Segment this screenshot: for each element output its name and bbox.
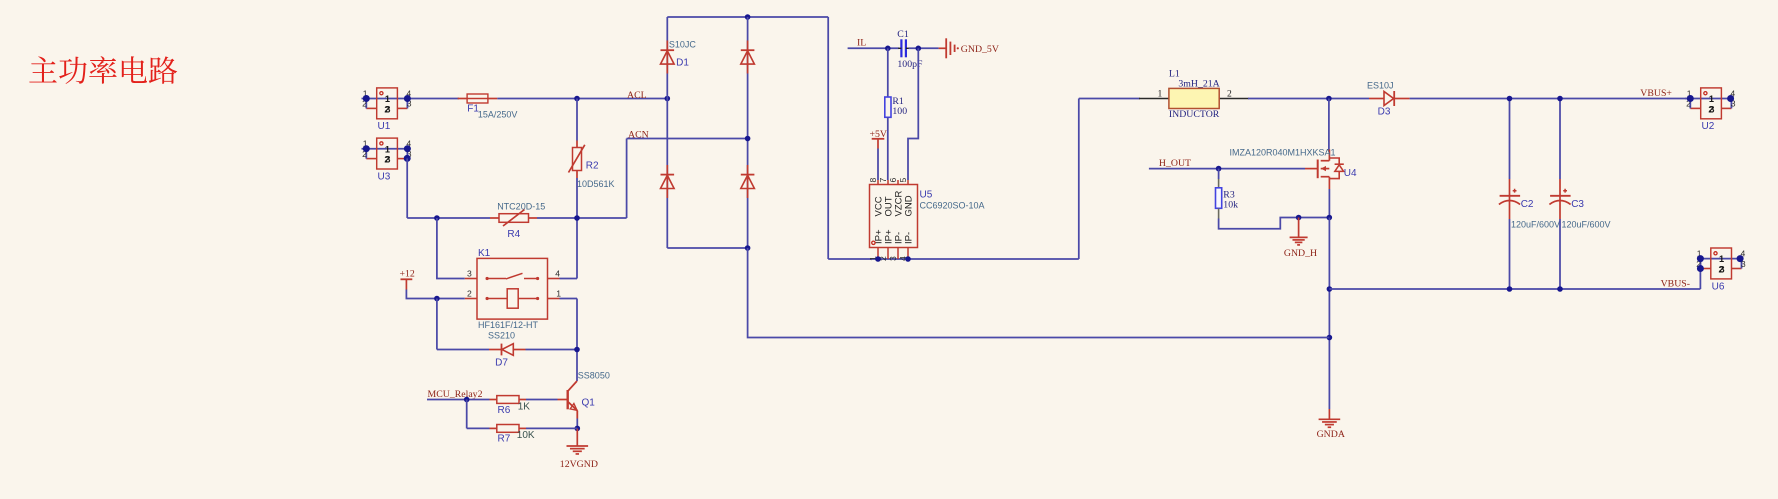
svg-text:SS210: SS210 bbox=[488, 330, 515, 340]
svg-text:8: 8 bbox=[868, 178, 878, 183]
wire divider down bbox=[466, 400, 468, 429]
junction C1 right bbox=[916, 46, 922, 52]
fuse F1 15A/250V bbox=[458, 94, 518, 120]
resistor R3 10k bbox=[1216, 169, 1239, 219]
junction return join bbox=[1327, 335, 1333, 341]
resistor R1 100 bbox=[885, 48, 907, 117]
svg-text:1K: 1K bbox=[518, 401, 531, 412]
wire R3 to source row bbox=[1219, 218, 1330, 229]
svg-text:NTC20D-15: NTC20D-15 bbox=[497, 201, 545, 211]
wire bridge to sensor bbox=[827, 17, 829, 259]
svg-text:H_OUT: H_OUT bbox=[1159, 158, 1191, 169]
wire bridge bottom bbox=[667, 247, 747, 249]
svg-text:7: 7 bbox=[878, 178, 888, 183]
wire VBUS- row bbox=[1329, 288, 1700, 290]
wire bridge top bbox=[667, 16, 828, 18]
wire ACN row bbox=[627, 138, 748, 140]
svg-text:+12: +12 bbox=[400, 269, 415, 280]
junction bus pin4 bbox=[905, 256, 911, 262]
svg-text:10D561K: 10D561K bbox=[577, 179, 615, 189]
junction bridge bottom bbox=[745, 245, 751, 251]
junction base divider bbox=[464, 397, 470, 403]
wire to L1 bbox=[1079, 98, 1140, 100]
capacitor C1 100pF bbox=[897, 29, 923, 70]
svg-text:C3: C3 bbox=[1571, 199, 1584, 210]
svg-text:K1: K1 bbox=[478, 248, 491, 259]
relay K1 HF161F/12-HT bbox=[465, 248, 562, 340]
svg-text:GNDA: GNDA bbox=[1317, 429, 1345, 440]
svg-text:ES10J: ES10J bbox=[1367, 81, 1394, 91]
wire to R7 bbox=[467, 427, 490, 429]
svg-text:1: 1 bbox=[385, 94, 390, 104]
wire U1 row bbox=[410, 98, 460, 100]
mosfet U4 IMZA120R040M1HXKSA1 bbox=[1230, 99, 1358, 190]
diode D7 SS210 bbox=[489, 344, 526, 369]
wire +5V to pin8 bbox=[877, 149, 879, 181]
svg-text:3: 3 bbox=[467, 269, 472, 279]
junction source bbox=[1327, 215, 1333, 221]
junction C3 top bbox=[1557, 96, 1563, 102]
svg-text:4: 4 bbox=[555, 269, 560, 279]
svg-text:S10JC: S10JC bbox=[669, 39, 697, 49]
junction R2 bottom bbox=[574, 215, 580, 221]
ground GND_H bbox=[1284, 218, 1317, 260]
svg-text:C2: C2 bbox=[1521, 199, 1534, 210]
transistor Q1 SS8050 bbox=[558, 370, 610, 418]
svg-text:U3: U3 bbox=[378, 171, 391, 182]
svg-text:3: 3 bbox=[385, 105, 390, 115]
svg-text:3: 3 bbox=[1720, 265, 1725, 275]
svg-text:SS8050: SS8050 bbox=[578, 370, 610, 380]
svg-text:120uF/600V: 120uF/600V bbox=[1562, 219, 1611, 229]
diode bridge bottom-left bbox=[661, 165, 675, 198]
wire sensor bus bbox=[828, 258, 1079, 260]
thermistor R4 NTC20D-15 bbox=[490, 201, 545, 240]
wire VBUS+ row bbox=[1410, 98, 1691, 100]
svg-text:CC6920SO-10A: CC6920SO-10A bbox=[920, 201, 985, 211]
junction C2 bottom bbox=[1507, 286, 1513, 292]
junction bridge top bbox=[745, 14, 751, 20]
svg-text:3mH_21A: 3mH_21A bbox=[1178, 79, 1219, 90]
svg-text:U4: U4 bbox=[1344, 168, 1357, 179]
wire D7 row bbox=[437, 349, 489, 351]
wire bridge right column bbox=[747, 17, 749, 248]
svg-text:ACL: ACL bbox=[627, 90, 647, 101]
svg-text:6: 6 bbox=[888, 178, 898, 183]
wire H_OUT bbox=[1149, 168, 1305, 170]
svg-text:D1: D1 bbox=[676, 58, 689, 69]
wire NTC row bbox=[407, 217, 490, 219]
IC U5 CC6920SO-10A bbox=[868, 178, 985, 262]
wire relay pin4 up bbox=[560, 278, 578, 280]
svg-text:GND: GND bbox=[903, 195, 914, 216]
svg-text:2: 2 bbox=[1227, 89, 1232, 100]
junction U2 pins bbox=[1687, 95, 1694, 102]
svg-text:3: 3 bbox=[888, 256, 898, 261]
junction ACL bridge bbox=[665, 96, 671, 102]
svg-text:1: 1 bbox=[385, 144, 390, 154]
capacitor C3 120uF/600V bbox=[1549, 99, 1610, 290]
svg-text:C1: C1 bbox=[897, 29, 909, 40]
svg-text:GND_H: GND_H bbox=[1284, 248, 1317, 259]
svg-text:VBUS-: VBUS- bbox=[1661, 278, 1690, 289]
junction bus pin1 bbox=[875, 256, 881, 262]
svg-text:IMZA120R040M1HXKSA1: IMZA120R040M1HXKSA1 bbox=[1230, 147, 1336, 157]
varistor R2 10D561K bbox=[569, 141, 615, 189]
svg-text:HF161F/12-HT: HF161F/12-HT bbox=[478, 320, 539, 330]
power port GND_5V bbox=[939, 38, 999, 58]
connector U2 bbox=[1685, 88, 1736, 132]
svg-text:R4: R4 bbox=[507, 229, 520, 240]
wire R1 to pin7 bbox=[887, 117, 889, 180]
junction IL-R1 bbox=[885, 46, 891, 52]
junction NTC left tap bbox=[434, 215, 440, 221]
svg-text:15A/250V: 15A/250V bbox=[478, 110, 518, 120]
svg-text:R2: R2 bbox=[586, 161, 599, 172]
svg-text:120uF/600V: 120uF/600V bbox=[1511, 219, 1560, 229]
wire bridge left column bbox=[666, 17, 668, 248]
svg-text:U5: U5 bbox=[920, 190, 933, 201]
svg-text:1: 1 bbox=[1709, 94, 1714, 104]
power port +5V bbox=[870, 129, 888, 149]
wire MCU_Relay2 bbox=[427, 399, 490, 401]
svg-text:1: 1 bbox=[1158, 89, 1163, 100]
wire U3 pin3 down bbox=[406, 158, 408, 218]
svg-text:INDUCTOR: INDUCTOR bbox=[1169, 109, 1220, 120]
svg-text:3: 3 bbox=[385, 155, 390, 165]
svg-text:100: 100 bbox=[892, 106, 907, 117]
svg-text:1: 1 bbox=[1719, 254, 1724, 264]
wire R7 to emitter bbox=[526, 427, 577, 429]
svg-text:10K: 10K bbox=[517, 430, 535, 441]
wire R6 to base bbox=[526, 399, 558, 401]
wire NTC tap to relay pin3 bbox=[437, 218, 465, 279]
svg-text:R7: R7 bbox=[498, 434, 511, 445]
junction D7 collector bbox=[574, 347, 580, 353]
wire IL bbox=[848, 47, 899, 49]
junction VBUS- left bbox=[1327, 286, 1333, 292]
wire C1 right bbox=[909, 47, 939, 49]
svg-text:12VGND: 12VGND bbox=[560, 459, 598, 470]
wire bridge return bbox=[748, 248, 1330, 338]
wire U4 source down bbox=[1328, 189, 1330, 218]
connector U1 bbox=[362, 88, 412, 132]
svg-text:U6: U6 bbox=[1712, 281, 1725, 292]
wire bus up to inductor bbox=[1078, 99, 1080, 260]
wire ACN vertical bbox=[626, 139, 628, 219]
svg-text:Q1: Q1 bbox=[582, 398, 596, 409]
svg-text:R6: R6 bbox=[498, 405, 511, 416]
connector U6 bbox=[1696, 248, 1746, 292]
svg-text:1: 1 bbox=[556, 289, 561, 299]
svg-text:3: 3 bbox=[1709, 105, 1714, 115]
svg-text:10k: 10k bbox=[1223, 200, 1238, 211]
junction C3 bottom bbox=[1557, 286, 1563, 292]
resistor R6 1K bbox=[490, 396, 531, 416]
diode D1 S10JC top-left bbox=[661, 39, 697, 73]
inductor L1 3mH_21A bbox=[1139, 69, 1249, 121]
svg-text:2: 2 bbox=[467, 289, 472, 299]
junction ACN bridge bbox=[745, 136, 751, 142]
resistor R7 10K bbox=[490, 425, 535, 445]
svg-text:GND_5V: GND_5V bbox=[961, 44, 999, 55]
svg-text:5: 5 bbox=[898, 178, 908, 183]
wire left vertical bbox=[576, 99, 578, 141]
junction U3 pins bbox=[363, 145, 370, 152]
wire U4 down to GNDA bbox=[1328, 218, 1330, 410]
power port +12 bbox=[400, 269, 415, 290]
wire emitter down bbox=[576, 419, 578, 429]
junction U1 pins bbox=[363, 95, 370, 102]
junction C2 top bbox=[1507, 96, 1513, 102]
junction GND_H tap bbox=[1296, 215, 1302, 221]
ground 12VGND bbox=[560, 428, 598, 469]
junction emitter R7 bbox=[575, 426, 581, 432]
svg-text:D7: D7 bbox=[495, 358, 508, 369]
diode D3 ES10J bbox=[1367, 81, 1410, 118]
svg-text:U2: U2 bbox=[1702, 121, 1715, 132]
diode bridge top-right bbox=[741, 41, 755, 74]
capacitor C2 120uF/600V bbox=[1499, 99, 1560, 290]
junction +12 D7 bbox=[434, 296, 440, 302]
svg-text:IP-: IP- bbox=[903, 232, 914, 244]
wire +12 to relay pin2 bbox=[406, 290, 464, 299]
wire ACL segment bbox=[497, 98, 667, 100]
ground GNDA bbox=[1317, 409, 1345, 440]
wire relay pin1 down bbox=[560, 298, 578, 300]
junction L1-D3-U4 bbox=[1326, 96, 1332, 102]
svg-text:MCU_Relay2: MCU_Relay2 bbox=[428, 389, 483, 400]
diode bridge bottom-right bbox=[741, 165, 755, 198]
junction U6 pins bbox=[1697, 255, 1704, 262]
svg-text:ACN: ACN bbox=[628, 129, 649, 140]
connector U3 bbox=[362, 138, 412, 182]
wire C1 to pin5 bbox=[908, 48, 918, 180]
junction H_OUT R3 bbox=[1216, 166, 1222, 172]
wire L1 to D3 bbox=[1248, 98, 1369, 100]
wire down to D7 row bbox=[436, 299, 438, 350]
junction ACL left-vertical bbox=[574, 96, 580, 102]
svg-text:D3: D3 bbox=[1378, 107, 1391, 118]
svg-text:U1: U1 bbox=[378, 121, 391, 132]
svg-text:IL: IL bbox=[857, 37, 866, 48]
svg-text:VBUS+: VBUS+ bbox=[1640, 88, 1672, 99]
title 主功率电路 bbox=[29, 56, 177, 84]
